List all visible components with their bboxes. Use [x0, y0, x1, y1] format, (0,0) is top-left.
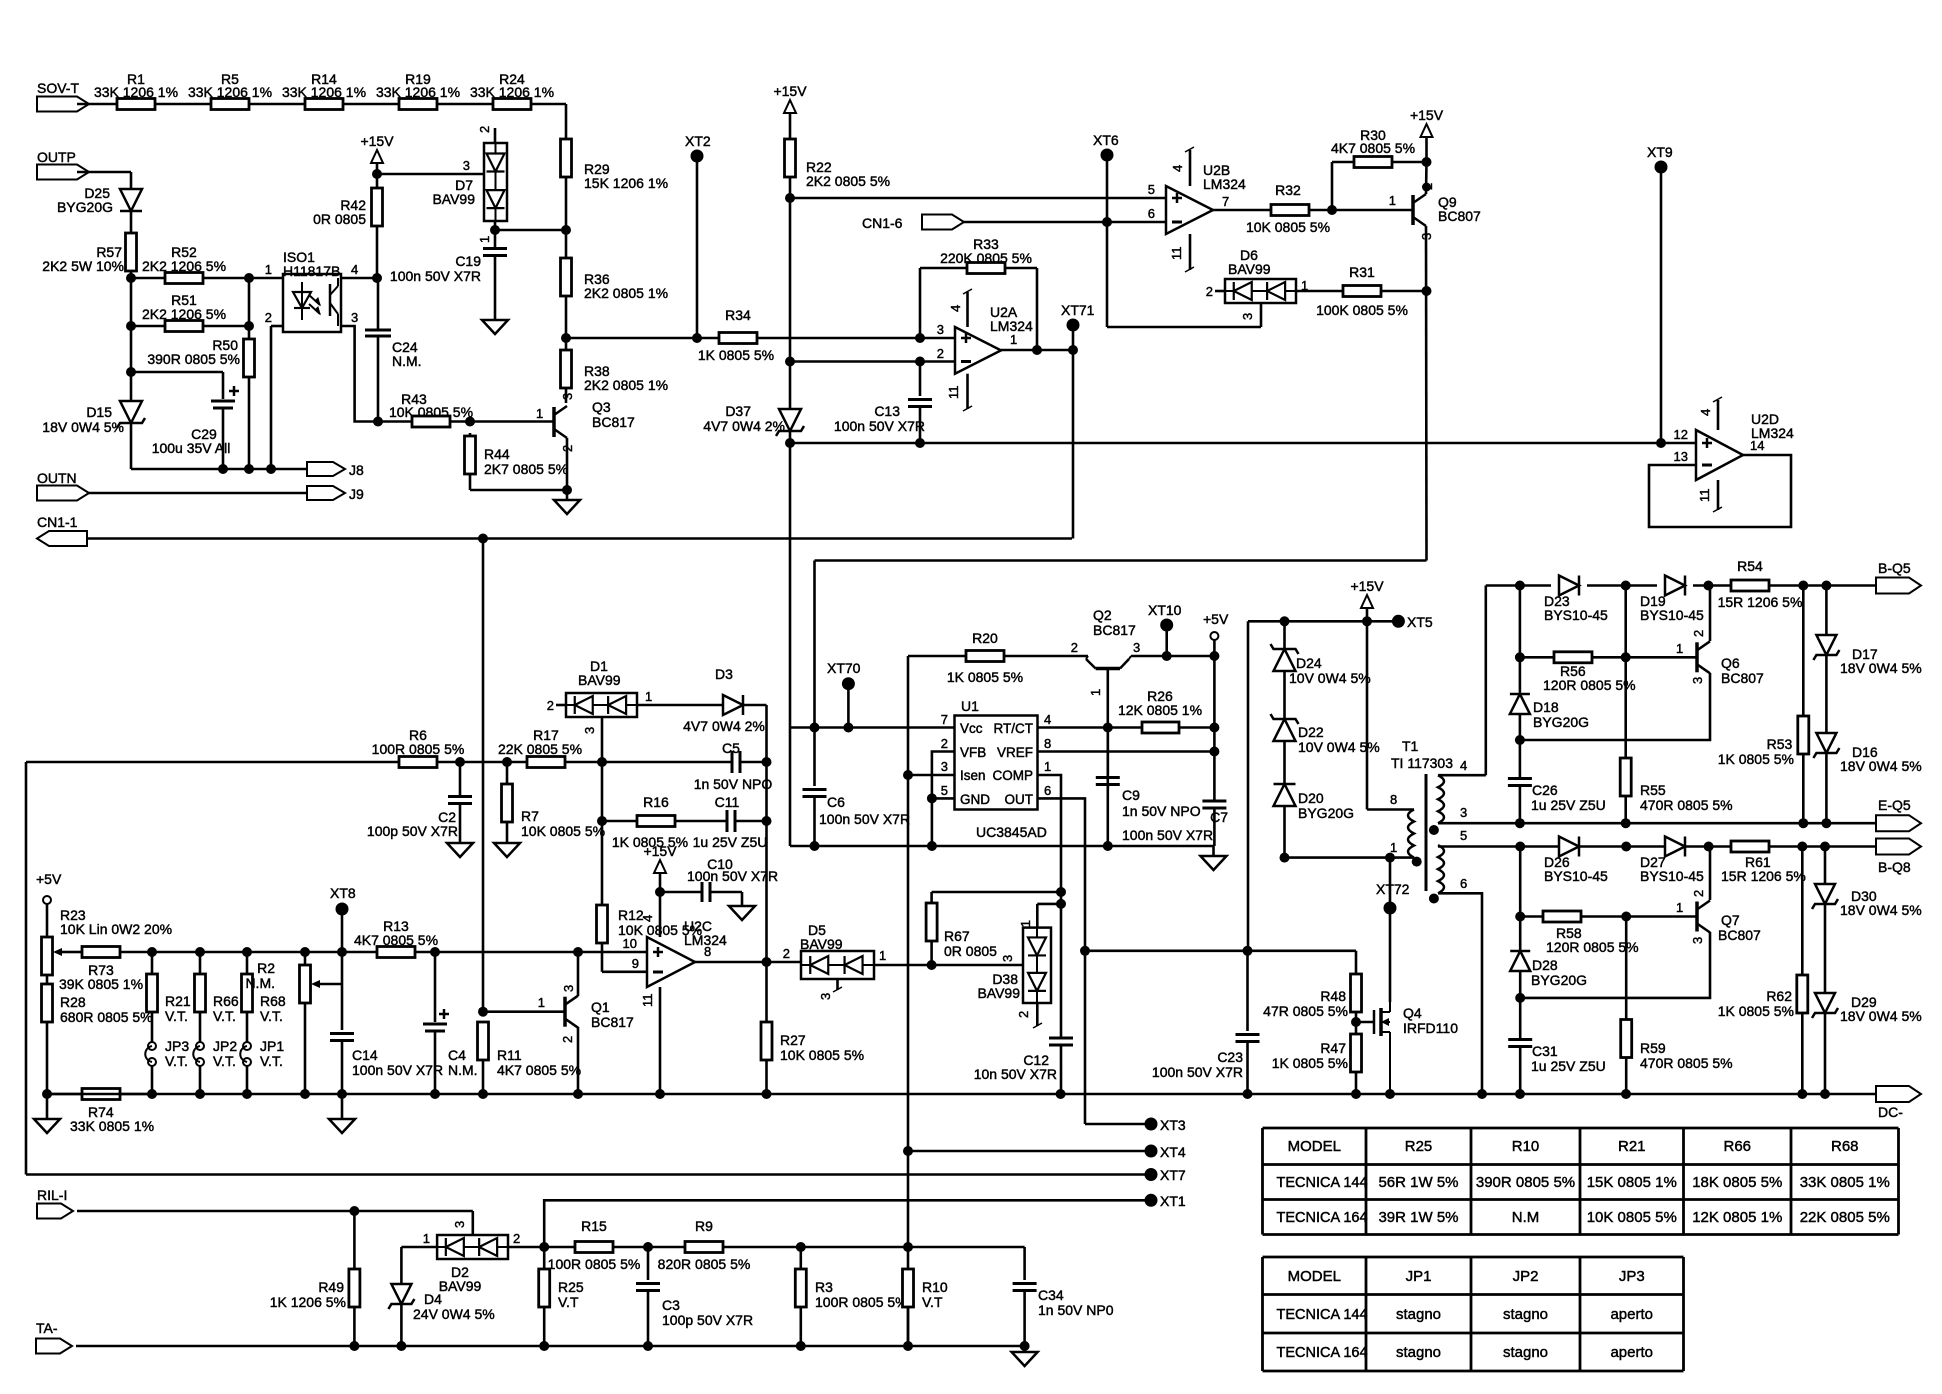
wire RIL-I [77, 1210, 473, 1213]
svg-text:D24: D24 [1296, 655, 1322, 671]
svg-text:1u 25V Z5U: 1u 25V Z5U [1531, 797, 1606, 813]
svg-text:RIL-I: RIL-I [37, 1187, 67, 1203]
resistor R17 [527, 757, 565, 768]
svg-text:R31: R31 [1349, 264, 1375, 280]
diode D25 [120, 189, 142, 211]
svg-text:2K2 0805 1%: 2K2 0805 1% [584, 285, 668, 301]
svg-text:XT72: XT72 [1376, 881, 1410, 897]
wire U2D feedback loop [1649, 455, 1791, 527]
capacitor C26 [1508, 777, 1532, 780]
svg-text:XT9: XT9 [1647, 144, 1673, 160]
svg-text:11: 11 [946, 386, 961, 400]
svg-text:0R 0805: 0R 0805 [313, 211, 366, 227]
test point XT5 [1367, 620, 1398, 623]
svg-text:3: 3 [560, 393, 575, 400]
resistor R55 [1620, 758, 1631, 796]
svg-text:14: 14 [1750, 438, 1764, 453]
svg-text:8: 8 [1390, 792, 1397, 807]
op-amp U2C [647, 937, 695, 987]
svg-text:2: 2 [265, 310, 272, 325]
svg-text:8: 8 [704, 944, 711, 959]
zener D37 [779, 409, 801, 431]
resistor R57 [126, 233, 137, 271]
wire CN1-1 to Q1 base [482, 539, 485, 1012]
test point XT6 [1101, 149, 1114, 162]
svg-text:R10: R10 [922, 1279, 948, 1295]
test point XT72 [1384, 902, 1397, 915]
wire Q9 emitter to +15V [1425, 162, 1428, 194]
resistor R67 [930, 892, 933, 903]
svg-text:33K 0805 1%: 33K 0805 1% [70, 1118, 154, 1134]
wire +15V to D7 pin3 [377, 173, 484, 176]
diode D3 [637, 704, 723, 707]
resistor R10 [903, 1269, 914, 1307]
svg-text:D37: D37 [725, 403, 751, 419]
svg-text:2: 2 [1691, 630, 1706, 637]
svg-text:11: 11 [640, 994, 655, 1008]
svg-text:XT2: XT2 [685, 133, 711, 149]
svg-text:OUTN: OUTN [37, 470, 77, 486]
wire D2 pin1 to D4 [401, 1246, 437, 1249]
IC U1 UC3845AD [955, 716, 1038, 810]
svg-text:C3: C3 [662, 1297, 680, 1313]
svg-text:3: 3 [1000, 955, 1015, 962]
resistor R36 [561, 258, 572, 296]
svg-text:100n 50V X7R: 100n 50V X7R [687, 868, 778, 884]
svg-text:BC807: BC807 [1438, 208, 1481, 224]
wire ISO1 pin2 column [270, 326, 273, 469]
svg-text:R34: R34 [725, 307, 751, 323]
svg-text:470R 0805 5%: 470R 0805 5% [1640, 797, 1733, 813]
svg-text:BC817: BC817 [1093, 622, 1136, 638]
svg-text:100u 35V All: 100u 35V All [152, 440, 231, 456]
svg-text:Q2: Q2 [1093, 607, 1112, 623]
diode D2 BAV99 [437, 1235, 508, 1259]
svg-text:5: 5 [1460, 828, 1467, 843]
wire R38-Q3 collector [565, 388, 568, 403]
svg-text:JP2: JP2 [213, 1038, 237, 1054]
svg-text:22K 0805 5%: 22K 0805 5% [1800, 1209, 1890, 1226]
svg-text:XT3: XT3 [1160, 1117, 1186, 1133]
wire DC- rail [47, 1093, 1876, 1096]
svg-text:stagno: stagno [1503, 1344, 1548, 1361]
wire COMP to R67/D5 [932, 891, 1061, 894]
svg-text:C14: C14 [352, 1047, 378, 1063]
svg-text:56R 1W 5%: 56R 1W 5% [1378, 1174, 1458, 1191]
power +15V at R42 [371, 150, 383, 163]
wire C29 top [131, 371, 223, 374]
svg-text:XT6: XT6 [1093, 132, 1119, 148]
svg-text:100n 50V X7R: 100n 50V X7R [1152, 1064, 1243, 1080]
svg-text:3: 3 [1690, 677, 1705, 684]
svg-text:2K2 0805 1%: 2K2 0805 1% [584, 377, 668, 393]
svg-text:3: 3 [582, 727, 597, 734]
svg-text:V.T.: V.T. [213, 1008, 236, 1024]
svg-text:1: 1 [1676, 900, 1683, 915]
svg-text:39K 0805 1%: 39K 0805 1% [59, 976, 143, 992]
svg-text:18K 0805 5%: 18K 0805 5% [1692, 1174, 1782, 1191]
wire Q2 base down to RT/CT [1107, 669, 1110, 790]
capacitor C6 [813, 728, 816, 787]
transistor Q6 [1695, 642, 1699, 672]
svg-text:1K 1206 5%: 1K 1206 5% [270, 1294, 346, 1310]
svg-text:24V 0W4 5%: 24V 0W4 5% [413, 1306, 495, 1322]
svg-text:Vcc: Vcc [960, 721, 983, 736]
svg-text:B-Q8: B-Q8 [1878, 859, 1911, 875]
op-amp U2A [955, 327, 1001, 374]
svg-text:R15: R15 [581, 1218, 607, 1234]
wire U1 OUT pin6 [1038, 798, 1086, 1124]
svg-text:1u 25V Z5U: 1u 25V Z5U [693, 834, 768, 850]
svg-text:D20: D20 [1298, 790, 1324, 806]
svg-text:4: 4 [640, 915, 655, 922]
svg-text:3: 3 [1690, 937, 1705, 944]
trimmer R2 [304, 952, 307, 965]
svg-text:BYG20G: BYG20G [1298, 805, 1354, 821]
diode D27 [1665, 837, 1685, 857]
svg-text:5: 5 [941, 783, 948, 798]
mosfet Q4 IRFD110 [1356, 1021, 1374, 1024]
svg-text:V.T.: V.T. [260, 1053, 283, 1069]
ground below C10 [729, 906, 755, 920]
svg-text:11: 11 [1697, 489, 1712, 503]
svg-text:BC807: BC807 [1718, 927, 1761, 943]
svg-text:N.M.: N.M. [448, 1062, 478, 1078]
wire B-Q5 rail [1486, 584, 1551, 587]
svg-text:39R 1W 5%: 39R 1W 5% [1378, 1209, 1458, 1226]
svg-text:V.T.: V.T. [260, 1008, 283, 1024]
wire D15 to J8 rail [130, 423, 133, 469]
connector B-Q5 [1876, 578, 1921, 594]
wire XT5/+15V down to T1 pin8 [1366, 621, 1369, 809]
op-amp U2D pin4 [1717, 400, 1720, 430]
svg-text:C34: C34 [1038, 1287, 1064, 1303]
resistor R48 [1355, 951, 1358, 975]
svg-text:OUT: OUT [1005, 792, 1034, 807]
svg-text:COMP: COMP [993, 768, 1034, 783]
svg-text:R44: R44 [484, 446, 510, 462]
zener D4 [391, 1284, 411, 1304]
op-amp U2B [1166, 186, 1213, 234]
capacitor C29 [211, 400, 235, 403]
svg-text:100R 0805 5%: 100R 0805 5% [815, 1294, 908, 1310]
svg-text:12K 0805 1%: 12K 0805 1% [1692, 1209, 1782, 1226]
connector DC- [1876, 1086, 1921, 1102]
svg-text:TECNICA 144: TECNICA 144 [1277, 1307, 1368, 1323]
capacitor C2 [459, 762, 462, 797]
svg-text:100R 0805 5%: 100R 0805 5% [372, 741, 465, 757]
svg-text:18V 0W4 5%: 18V 0W4 5% [1840, 758, 1922, 774]
svg-text:R25: R25 [558, 1279, 584, 1295]
wire Q1 emitter [577, 1027, 580, 1094]
wire T1 pin4 [1438, 774, 1486, 777]
svg-text:4: 4 [948, 305, 963, 312]
resistor R73 [82, 947, 120, 958]
svg-text:0R 0805: 0R 0805 [944, 943, 997, 959]
diode D26 [1559, 837, 1579, 857]
svg-text:JP3: JP3 [165, 1038, 189, 1054]
wire U1 RT/CT pin4 [1038, 726, 1143, 729]
wire U2D plus input [790, 442, 1696, 445]
wire D19/D23 mid column [1624, 586, 1627, 759]
wire Q1 collector [577, 952, 580, 996]
svg-text:1K 0805 5%: 1K 0805 5% [1718, 1003, 1794, 1019]
svg-text:R16: R16 [643, 794, 669, 810]
resistor R12 [597, 905, 608, 943]
wire U1 VREF pin8 [1038, 750, 1215, 753]
resistor R9 [685, 1242, 723, 1253]
wire U2B plus input [790, 197, 1166, 200]
svg-text:R28: R28 [60, 994, 86, 1010]
op-amp U2D pin11 [1717, 480, 1720, 510]
resistor R15 [575, 1242, 613, 1253]
resistor R22 [785, 139, 796, 177]
svg-text:R11: R11 [497, 1047, 522, 1063]
svg-text:N.M.: N.M. [245, 975, 275, 991]
test point XT2 [691, 150, 704, 163]
svg-text:R59: R59 [1640, 1040, 1666, 1056]
svg-text:100n 50V X7R: 100n 50V X7R [834, 418, 925, 434]
resistor R62 [1801, 847, 1804, 976]
capacitor C12 [1049, 1037, 1073, 1040]
table model resistor options [1263, 1127, 1899, 1130]
svg-text:1: 1 [645, 689, 652, 704]
wire T1 pin6 [1438, 893, 1482, 1094]
wire U1 GND pin5 [932, 797, 955, 800]
wire XT71 down to CN1-1 [1072, 325, 1075, 539]
wire R50 column [248, 278, 251, 339]
svg-text:BYS10-45: BYS10-45 [1544, 607, 1608, 623]
svg-text:+5V: +5V [1203, 611, 1229, 627]
svg-text:R47: R47 [1320, 1040, 1346, 1056]
svg-text:4V7 0W4 2%: 4V7 0W4 2% [683, 718, 765, 734]
svg-text:+15V: +15V [773, 83, 807, 99]
svg-text:100p 50V X7R: 100p 50V X7R [662, 1312, 753, 1328]
diode D23 [1559, 576, 1579, 596]
capacitor C3 [647, 1247, 650, 1280]
svg-text:R68: R68 [1831, 1138, 1859, 1155]
wire plus-input row y=952 [66, 951, 82, 954]
svg-text:R32: R32 [1275, 182, 1301, 198]
power +15V at U2C [654, 860, 666, 873]
svg-text:15R 1206 5%: 15R 1206 5% [1718, 594, 1803, 610]
ground below C34 [1023, 1346, 1026, 1352]
svg-text:18V 0W4 5%: 18V 0W4 5% [1840, 660, 1922, 676]
svg-text:100K 0805 5%: 100K 0805 5% [1316, 302, 1408, 318]
svg-text:JP3: JP3 [1619, 1268, 1645, 1285]
svg-text:6: 6 [1148, 206, 1155, 221]
svg-text:BYS10-45: BYS10-45 [1544, 868, 1608, 884]
capacitor C14 [330, 1032, 354, 1035]
svg-text:Q7: Q7 [1721, 912, 1740, 928]
svg-text:V.T.: V.T. [213, 1053, 236, 1069]
ground below C2 [447, 843, 473, 857]
svg-text:RT/CT: RT/CT [994, 721, 1034, 736]
resistor R50 [244, 339, 255, 377]
svg-text:TI 117303: TI 117303 [1391, 755, 1453, 771]
wire to C23 column [1247, 621, 1250, 951]
svg-text:7: 7 [941, 712, 948, 727]
svg-text:DC-: DC- [1878, 1104, 1903, 1120]
svg-text:5: 5 [1148, 182, 1155, 197]
connector J9 [307, 486, 345, 500]
svg-text:XT5: XT5 [1407, 614, 1433, 630]
svg-text:D22: D22 [1298, 724, 1324, 740]
test point XT9 [1655, 161, 1668, 174]
test point XT71 [1067, 319, 1080, 332]
svg-text:XT1: XT1 [1160, 1193, 1186, 1209]
diode D15 zener [120, 401, 142, 423]
svg-text:1: 1 [1389, 193, 1396, 208]
svg-text:1K 0805 5%: 1K 0805 5% [947, 669, 1023, 685]
svg-text:4K7 0805 5%: 4K7 0805 5% [497, 1062, 581, 1078]
svg-text:3: 3 [561, 985, 576, 992]
connector E-Q5 [1876, 815, 1921, 831]
wire Q6 emitter up [1709, 586, 1712, 642]
svg-text:1n 50V NPO: 1n 50V NPO [1122, 803, 1201, 819]
svg-text:JP1: JP1 [260, 1038, 284, 1054]
wire R58 row [1519, 847, 1522, 952]
wire U1 Isen pin3 [908, 774, 955, 777]
resistor R54 [1731, 580, 1769, 591]
svg-text:3: 3 [941, 759, 948, 774]
wire U2C output [695, 961, 801, 964]
resistor R31 [1296, 290, 1344, 293]
svg-text:1: 1 [1676, 641, 1683, 656]
svg-text:2: 2 [1016, 1011, 1031, 1018]
svg-text:R21: R21 [165, 993, 191, 1009]
svg-text:3: 3 [1460, 805, 1467, 820]
jumper JP3 [148, 1042, 156, 1050]
svg-text:2K2 1206 5%: 2K2 1206 5% [142, 306, 226, 322]
svg-text:stagno: stagno [1503, 1306, 1548, 1323]
svg-text:470R 0805 5%: 470R 0805 5% [1640, 1055, 1733, 1071]
table model jumper options [1263, 1256, 1684, 1259]
svg-text:100n 50V X7R: 100n 50V X7R [352, 1062, 443, 1078]
svg-text:3: 3 [818, 993, 833, 1000]
resistor R53 [1802, 586, 1805, 717]
wire D7 pin1 to R29/R36 junction [495, 229, 566, 232]
svg-text:BAV99: BAV99 [977, 985, 1020, 1001]
resistor R5 [211, 99, 249, 110]
ground below R28 [34, 1119, 60, 1133]
svg-text:1n 50V NPO: 1n 50V NPO [694, 776, 773, 792]
svg-text:R55: R55 [1640, 782, 1666, 798]
resistor R24 [493, 99, 531, 110]
zener D22 [1274, 719, 1296, 741]
diode D38 BAV99 [1023, 928, 1051, 1003]
resistor R49 [353, 1211, 356, 1269]
svg-text:C31: C31 [1532, 1043, 1558, 1059]
svg-text:10K 0805 5%: 10K 0805 5% [780, 1047, 864, 1063]
test point XT4 [908, 1150, 1151, 1153]
svg-text:R3: R3 [815, 1279, 833, 1295]
svg-text:4: 4 [1460, 758, 1467, 773]
svg-text:4: 4 [1698, 409, 1713, 416]
wire R36/R38 junction to R34 [566, 337, 719, 340]
svg-text:10K 0805 5%: 10K 0805 5% [1587, 1209, 1677, 1226]
svg-text:aperto: aperto [1610, 1344, 1653, 1361]
svg-text:T1: T1 [1402, 738, 1419, 754]
svg-text:C26: C26 [1532, 782, 1558, 798]
svg-text:R67: R67 [944, 928, 970, 944]
svg-text:120R 0805 5%: 120R 0805 5% [1543, 677, 1636, 693]
svg-text:Q6: Q6 [1721, 655, 1740, 671]
resistor R32 [1271, 205, 1309, 216]
svg-text:V.T: V.T [558, 1294, 579, 1310]
svg-text:10K 0805 5%: 10K 0805 5% [389, 404, 473, 420]
diode D6 BAV99 [1225, 279, 1296, 303]
svg-text:15K 1206 1%: 15K 1206 1% [584, 175, 668, 191]
test point XT3 [1085, 1123, 1151, 1126]
resistor R42 [376, 174, 379, 188]
svg-text:1K 0805 5%: 1K 0805 5% [1272, 1055, 1348, 1071]
wire CN1-6 to U2B [964, 221, 1166, 224]
svg-text:D4: D4 [424, 1291, 442, 1307]
svg-text:18V 0W4 5%: 18V 0W4 5% [42, 419, 124, 435]
svg-text:D15: D15 [86, 404, 112, 420]
svg-text:C5: C5 [722, 740, 740, 756]
svg-text:R21: R21 [1618, 1138, 1646, 1155]
transistor Q1 [483, 1010, 565, 1013]
svg-text:2: 2 [513, 1231, 520, 1246]
svg-text:47R 0805 5%: 47R 0805 5% [1263, 1003, 1348, 1019]
wire ISO1 pin3 route [341, 326, 378, 422]
svg-text:BC817: BC817 [591, 1014, 634, 1030]
connector B-Q8 [1876, 839, 1921, 855]
jumper JP2 [196, 1042, 204, 1050]
svg-text:+15V: +15V [1350, 578, 1384, 594]
svg-text:3: 3 [937, 322, 944, 337]
resistor R51 [131, 325, 165, 328]
svg-text:J9: J9 [349, 486, 364, 502]
svg-text:C13: C13 [874, 403, 900, 419]
wire XT6 down to D6 pin3 route [1106, 155, 1109, 327]
svg-text:R68: R68 [260, 993, 286, 1009]
wire Q7 emitter up [1709, 847, 1712, 901]
svg-text:1: 1 [1010, 332, 1017, 347]
svg-text:XT7: XT7 [1160, 1167, 1186, 1183]
zener D29 [1824, 904, 1827, 993]
svg-text:V.T: V.T [922, 1294, 943, 1310]
op-amp U2B pin11 [1189, 234, 1192, 270]
svg-text:390R 0805 5%: 390R 0805 5% [1476, 1174, 1575, 1191]
resistor R59 [1625, 917, 1628, 1020]
svg-text:11: 11 [1169, 247, 1184, 261]
test point XT7 [26, 1173, 1151, 1176]
wire R36-R38 [565, 296, 568, 350]
capacitor C31 [1508, 1038, 1532, 1041]
svg-text:SOV-T: SOV-T [37, 80, 79, 96]
svg-text:2: 2 [783, 946, 790, 961]
test point XT1 [544, 1200, 1151, 1247]
svg-text:R20: R20 [972, 630, 998, 646]
svg-text:1: 1 [1390, 840, 1397, 855]
wire OUTP to D25 [77, 171, 131, 174]
wire Q7 collector down and left [1520, 932, 1710, 998]
svg-text:100n 50V X7R: 100n 50V X7R [819, 811, 910, 827]
svg-text:+15V: +15V [360, 133, 394, 149]
svg-text:2K7 0805 5%: 2K7 0805 5% [484, 461, 568, 477]
svg-text:120R 0805 5%: 120R 0805 5% [1546, 939, 1639, 955]
svg-text:6: 6 [1044, 783, 1051, 798]
wire U1 VFB pin2 [932, 752, 955, 799]
wire R16/C11 row [601, 762, 604, 905]
wire CN1-1 [87, 537, 1072, 540]
transistor Q2 [1096, 667, 1120, 671]
resistor R6 [399, 757, 437, 768]
resistor R30 [1331, 162, 1334, 210]
